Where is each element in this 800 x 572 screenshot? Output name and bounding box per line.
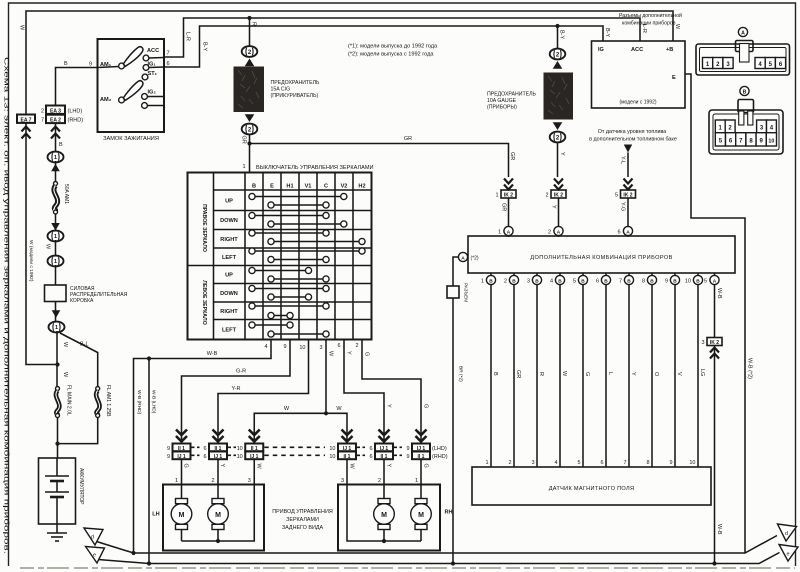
battery АККУМУЛЯТОР	[39, 458, 85, 524]
svg-text:LEFT: LEFT	[222, 328, 237, 334]
wire	[55, 302, 57, 323]
svg-text:W: W	[561, 371, 567, 377]
sensor pin numbers	[485, 460, 695, 466]
svg-text:4: 4	[550, 279, 553, 285]
wire pin9 B	[56, 61, 98, 106]
sensor wire V	[675, 285, 682, 467]
svg-text:RIGHT: RIGHT	[220, 309, 238, 315]
svg-text:B: B	[627, 278, 631, 284]
svg-text:1: 1	[55, 325, 58, 331]
svg-text:IK 2: IK 2	[710, 340, 719, 346]
wire W to junction	[57, 331, 68, 387]
pin 1 A	[498, 226, 513, 237]
svg-text:FL MAIN 2.0L: FL MAIN 2.0L	[66, 385, 72, 416]
svg-text:GR: GR	[501, 203, 507, 211]
svg-text:B: B	[489, 278, 493, 284]
fusible link FL MAIN 2.0L	[56, 385, 72, 418]
svg-text:B: B	[535, 278, 539, 284]
svg-text:GR: GR	[509, 152, 515, 160]
svg-text:II 1: II 1	[418, 454, 425, 460]
svg-text:3: 3	[531, 460, 534, 466]
svg-text:LEFT: LEFT	[222, 255, 237, 261]
svg-text:Y-G: Y-G	[620, 202, 626, 211]
junction node BR bus	[451, 561, 455, 565]
connector 2 IK2	[545, 179, 566, 199]
connector oval 2	[550, 49, 566, 69]
svg-text:Y: Y	[386, 404, 392, 408]
svg-text:10: 10	[237, 454, 243, 460]
junction node GR	[247, 141, 251, 145]
svg-text:IK 2: IK 2	[623, 193, 632, 199]
svg-text:10: 10	[329, 446, 335, 452]
sensor wire G	[583, 285, 590, 467]
svg-text:E: E	[672, 75, 676, 81]
svg-text:10: 10	[299, 345, 305, 351]
svg-text:B: B	[492, 372, 498, 376]
motor M1 RH	[411, 499, 432, 542]
ground bus upper (d)	[134, 536, 778, 554]
pin 9 B	[665, 273, 680, 285]
svg-text:B: B	[252, 184, 256, 190]
connector EA2 (RHD)	[41, 115, 83, 139]
svg-text:RIGHT: RIGHT	[220, 237, 238, 243]
ground bus lower (e)	[149, 553, 780, 564]
switch contact AM1	[98, 47, 143, 69]
connector A drawing	[696, 27, 790, 75]
svg-text:(*2): (*2)	[471, 256, 479, 262]
wire E W-B(*2)	[685, 74, 753, 553]
pin 10 B	[685, 273, 703, 285]
wire W-B (LHD) vertical	[136, 359, 157, 564]
svg-text:W-B: W-B	[207, 351, 218, 357]
svg-text:10: 10	[768, 139, 774, 145]
svg-text:ДАТЧИК МАГНИТНОГО ПОЛЯ: ДАТЧИК МАГНИТНОГО ПОЛЯ	[549, 486, 635, 492]
wire W-B to bus	[715, 346, 723, 564]
svg-text:2: 2	[508, 460, 511, 466]
connector EA7	[17, 115, 35, 139]
wire Y pin6	[344, 340, 392, 444]
svg-text:(RHD): (RHD)	[68, 118, 84, 124]
svg-text:Y: Y	[219, 464, 225, 468]
svg-text:9: 9	[669, 460, 672, 466]
connector oval 1	[48, 152, 64, 172]
junction node bus upper left	[131, 551, 135, 555]
svg-text:6: 6	[600, 460, 603, 466]
svg-text:A: A	[557, 229, 561, 235]
mirror actuator box LH	[152, 485, 264, 551]
wire W common RH	[341, 459, 421, 541]
pin 1 B	[481, 273, 496, 285]
mirror control switch ВЫКЛЮЧАТЕЛЬ УПРАВЛЕНИЯ ЗЕРКАЛАМИ	[188, 165, 374, 340]
svg-text:КОРОБКА: КОРОБКА	[70, 298, 94, 304]
svg-text:3: 3	[341, 478, 344, 484]
svg-text:ВЫКЛЮЧАТЕЛЬ УПРАВЛЕНИЯ ЗЕРКАЛА: ВЫКЛЮЧАТЕЛЬ УПРАВЛЕНИЯ ЗЕРКАЛАМИ	[256, 165, 374, 171]
svg-text:1: 1	[54, 234, 57, 240]
svg-text:G: G	[584, 372, 590, 376]
connector IJ pin6 LH	[203, 430, 236, 460]
svg-text:B-L: B-L	[80, 342, 89, 348]
svg-text:ДОПОЛНИТЕЛЬНАЯ КОМБИНАЦИЯ ПРИБ: ДОПОЛНИТЕЛЬНАЯ КОМБИНАЦИЯ ПРИБОРОВ	[530, 255, 672, 261]
wire G pin2	[362, 340, 429, 444]
svg-text:B: B	[581, 278, 585, 284]
pin 8 B	[642, 273, 657, 285]
svg-text:IJ 1: IJ 1	[177, 454, 186, 460]
svg-text:(*2): модели выпуска с 1992 го: (*2): модели выпуска с 1992 года	[348, 52, 434, 58]
triangle connector e left	[86, 547, 150, 564]
svg-text:5: 5	[573, 279, 576, 285]
wire from FL AM1	[58, 418, 98, 444]
svg-text:II 1: II 1	[344, 454, 351, 460]
svg-text:B-Y: B-Y	[559, 30, 565, 40]
svg-text:II 1: II 1	[215, 446, 222, 452]
net W top bus	[19, 11, 681, 115]
svg-text:1: 1	[485, 460, 488, 466]
wire W-B from pin 5A	[715, 285, 723, 338]
connector EA3 (LHD)	[41, 106, 82, 115]
connector IJ pin9 RH	[406, 430, 447, 460]
junction node	[55, 442, 59, 446]
svg-text:6: 6	[369, 454, 372, 460]
switch contacts right mirror DOWN	[249, 212, 347, 227]
svg-text:ПРЕДОХРАНИТЕЛЬ: ПРЕДОХРАНИТЕЛЬ	[487, 92, 537, 98]
svg-text:9: 9	[665, 279, 668, 285]
wire BR (*2)	[453, 257, 464, 564]
pin 4 B	[550, 273, 565, 285]
sensor wire L	[606, 285, 613, 467]
svg-text:IG₂: IG₂	[148, 90, 157, 96]
svg-text:A: A	[626, 229, 630, 235]
svg-text:E: E	[270, 184, 274, 190]
ground	[47, 524, 67, 541]
svg-text:II 1: II 1	[381, 454, 388, 460]
switch contact AM2	[100, 81, 143, 103]
svg-text:2: 2	[355, 343, 358, 349]
svg-text:H1: H1	[286, 184, 293, 190]
svg-text:Y: Y	[630, 372, 636, 376]
svg-text:G-R: G-R	[236, 369, 246, 375]
switch contacts left mirror DOWN	[249, 285, 329, 300]
svg-text:FL AM1 1.25B: FL AM1 1.25B	[105, 385, 111, 417]
svg-text:GR: GR	[241, 136, 247, 144]
svg-text:Y: Y	[346, 351, 352, 355]
svg-text:Y-L: Y-L	[620, 156, 626, 164]
connector oval 1	[49, 310, 65, 332]
svg-text:7: 7	[167, 51, 170, 57]
pin 2 B	[504, 273, 519, 285]
wire G to motor 1 LH	[175, 459, 189, 498]
wire W-B pin4	[134, 340, 272, 554]
connector IJ pin10 RH	[329, 430, 365, 460]
wire W	[45, 240, 56, 257]
svg-text:(LHD): (LHD)	[68, 109, 83, 115]
svg-text:IJ 1: IJ 1	[417, 446, 426, 452]
svg-text:B: B	[512, 278, 516, 284]
svg-text:M: M	[381, 512, 387, 519]
svg-text:4: 4	[554, 460, 557, 466]
svg-text:e: e	[787, 552, 790, 558]
svg-text:ПРЕДОХРАНИТЕЛЬ: ПРЕДОХРАНИТЕЛЬ	[271, 80, 321, 86]
svg-text:W: W	[62, 372, 68, 378]
magnetic field sensor box ДАТЧИК МАГНИТНОГО ПОЛЯ	[472, 467, 711, 505]
svg-text:1: 1	[54, 259, 57, 265]
wire B-L branch	[60, 333, 98, 387]
svg-text:O: O	[653, 372, 659, 377]
svg-text:15A CIG: 15A CIG	[271, 87, 291, 93]
svg-text:R: R	[251, 22, 257, 26]
svg-text:L: L	[607, 372, 613, 375]
svg-text:10: 10	[237, 446, 243, 452]
wire Y down	[558, 142, 566, 177]
svg-text:RH: RH	[445, 510, 453, 516]
wire G to motor 1 RH	[415, 459, 429, 498]
svg-text:9: 9	[89, 62, 92, 68]
ignition switch box ЗАМОК ЗАЖИГАНИЯ	[98, 39, 165, 142]
pin 3 B	[527, 273, 542, 285]
wire	[55, 214, 57, 231]
connector B drawing	[709, 86, 783, 154]
fusible link FL AM1 1.25B	[96, 385, 111, 418]
svg-text:W: W	[256, 464, 262, 470]
junction node LH motors	[216, 539, 220, 543]
svg-text:6: 6	[596, 279, 599, 285]
svg-text:8: 8	[646, 460, 649, 466]
svg-text:ST₁: ST₁	[148, 71, 158, 77]
svg-text:R: R	[538, 372, 544, 376]
svg-text:A: A	[713, 278, 717, 284]
svg-text:G: G	[364, 352, 370, 356]
svg-text:1: 1	[175, 478, 178, 484]
svg-text:ACC: ACC	[631, 47, 643, 53]
terminal ST1	[142, 71, 158, 80]
connector РАЗЪЕМ	[447, 283, 469, 302]
svg-text:W: W	[19, 25, 25, 31]
junction on L-R bus	[247, 16, 251, 20]
mirror actuator box RH	[338, 485, 453, 551]
sensor wire LG	[698, 285, 705, 467]
svg-text:(LHD): (LHD)	[432, 446, 447, 452]
svg-text:АККУМУЛЯТОР: АККУМУЛЯТОР	[78, 468, 84, 505]
svg-text:V2: V2	[341, 184, 348, 190]
svg-text:4: 4	[264, 344, 267, 350]
svg-text:W: W	[45, 244, 51, 250]
svg-text:10: 10	[689, 460, 695, 466]
junction on B-Y bus	[555, 24, 559, 28]
terminal IG1	[143, 62, 164, 71]
svg-text:V1: V1	[305, 184, 312, 190]
svg-text:DOWN: DOWN	[220, 291, 238, 297]
fuse 15A CIG	[234, 67, 321, 113]
net L-R bus	[164, 18, 647, 57]
wire to battery	[57, 418, 59, 459]
motor M1 LH	[171, 499, 192, 542]
svg-text:Y-R: Y-R	[232, 386, 241, 392]
svg-text:(модели с 1992): (модели с 1992)	[619, 100, 656, 106]
svg-text:1: 1	[415, 478, 418, 484]
motor M2 RH	[374, 499, 395, 542]
wire R from ACC bus	[250, 18, 257, 46]
svg-text:EA 3: EA 3	[50, 108, 61, 114]
svg-text:Схема 13: элект. оп. ивод упра: Схема 13: элект. оп. ивод управления зер…	[3, 57, 10, 555]
svg-text:6: 6	[337, 343, 340, 349]
svg-text:GR: GR	[515, 370, 521, 378]
svg-text:7: 7	[41, 118, 44, 124]
svg-text:B: B	[696, 278, 700, 284]
switch contacts right mirror UP	[249, 193, 347, 208]
svg-text:3: 3	[319, 345, 322, 351]
svg-text:W-B: W-B	[716, 524, 722, 535]
svg-text:W: W	[328, 351, 334, 357]
wire Y-G	[620, 198, 629, 227]
svg-text:W: W	[349, 464, 355, 470]
wire W left vertical	[26, 123, 58, 365]
wire B-Y to 10A fuse	[558, 26, 565, 49]
svg-text:От датчика уровня топлива: От датчика уровня топлива	[598, 129, 667, 135]
svg-text:W: W	[336, 406, 342, 412]
svg-text:ЛЕВОЕ ЗЕРКАЛО: ЛЕВОЕ ЗЕРКАЛО	[201, 280, 207, 324]
sensor wire R	[537, 285, 544, 467]
svg-text:1: 1	[495, 193, 498, 199]
switch contacts right mirror LEFT	[249, 248, 365, 263]
wire	[55, 161, 57, 182]
svg-text:6: 6	[203, 454, 206, 460]
svg-text:6: 6	[617, 230, 620, 236]
svg-text:G: G	[183, 464, 189, 468]
svg-text:9: 9	[406, 446, 409, 452]
svg-text:5: 5	[577, 460, 580, 466]
svg-text:UP: UP	[225, 273, 233, 279]
svg-text:LG: LG	[699, 369, 705, 376]
svg-text:A: A	[461, 255, 465, 261]
svg-text:B-Y: B-Y	[604, 28, 610, 38]
svg-text:B: B	[650, 278, 654, 284]
svg-text:W: W	[62, 342, 68, 348]
svg-text:ЗАМОК ЗАЖИГАНИЯ: ЗАМОК ЗАЖИГАНИЯ	[103, 136, 159, 142]
svg-text:1: 1	[54, 155, 57, 161]
wire W common LH	[182, 459, 262, 541]
wire GR to cluster	[250, 136, 509, 177]
svg-text:9: 9	[167, 446, 170, 452]
svg-text:d: d	[91, 535, 94, 541]
svg-text:IG: IG	[598, 47, 604, 53]
svg-text:5: 5	[615, 193, 618, 199]
svg-text:Разъемы дополнительной: Разъемы дополнительной	[619, 12, 682, 19]
svg-text:II 1: II 1	[251, 446, 258, 452]
fusible link 50A AM1	[54, 182, 70, 215]
actuator caption	[272, 509, 333, 531]
switch contacts left mirror UP	[249, 267, 329, 282]
svg-text:A: A	[741, 30, 745, 36]
wire Y	[551, 198, 559, 227]
triangle connector d left	[84, 528, 134, 553]
svg-text:B: B	[673, 278, 677, 284]
svg-text:II 1: II 1	[178, 446, 185, 452]
terminal unnamed	[142, 103, 164, 109]
connector 5 IK2	[615, 179, 636, 199]
svg-text:РАЗЪЕМ: РАЗЪЕМ	[464, 283, 469, 302]
svg-text:L-R: L-R	[185, 32, 191, 41]
svg-text:W-B (LHD): W-B (LHD)	[151, 390, 157, 414]
svg-text:e: e	[93, 553, 96, 559]
note (*1)(*2)	[348, 44, 438, 58]
pin 7 B	[619, 273, 634, 285]
svg-text:W: W	[284, 406, 290, 412]
connector oval 2	[550, 122, 566, 142]
pin A (*2) left	[458, 252, 478, 261]
svg-text:6: 6	[369, 446, 372, 452]
box instrument 1992 IG ACC +B	[592, 41, 686, 108]
fuel sender note	[589, 129, 677, 177]
junction node W-B bus	[712, 561, 716, 565]
svg-text:Y: Y	[551, 205, 557, 209]
svg-text:DOWN: DOWN	[220, 218, 238, 224]
junction node	[55, 362, 59, 366]
svg-text:2: 2	[378, 478, 381, 484]
svg-text:V: V	[676, 372, 682, 376]
pin 2 A	[548, 226, 563, 237]
svg-text:2: 2	[548, 230, 551, 236]
svg-text:IJ 1: IJ 1	[214, 454, 223, 460]
svg-text:+B: +B	[666, 47, 673, 53]
svg-text:W-B (*2): W-B (*2)	[747, 358, 753, 379]
connector oval 1	[48, 256, 64, 267]
svg-text:G: G	[423, 464, 429, 468]
additional instrument cluster box	[468, 236, 735, 273]
wire G-R pin9	[182, 340, 291, 444]
svg-text:B: B	[743, 89, 747, 95]
svg-text:9: 9	[406, 454, 409, 460]
switch contacts right mirror RIGHT	[249, 230, 365, 245]
wire GR down	[241, 134, 250, 173]
svg-text:IJ 1: IJ 1	[343, 446, 352, 452]
sensor wire O	[652, 285, 659, 467]
wire W pin3	[254, 340, 347, 444]
svg-text:10: 10	[685, 279, 691, 285]
svg-text:EA 7: EA 7	[21, 117, 32, 123]
svg-text:в дополнительном топливном бак: в дополнительном топливном баке	[589, 137, 677, 143]
svg-text:H2: H2	[358, 184, 365, 190]
svg-text:9: 9	[167, 454, 170, 460]
junction node W	[324, 411, 328, 415]
svg-text:GR: GR	[404, 136, 412, 142]
svg-text:10A GAUGE: 10A GAUGE	[487, 98, 517, 104]
sensor wire B	[491, 285, 498, 467]
power distribution box СИЛОВАЯ	[45, 285, 128, 304]
connector oval 1	[48, 223, 64, 241]
pin 5 A right	[704, 273, 719, 285]
connector IJ pin10 LH	[237, 430, 325, 460]
svg-text:7: 7	[619, 279, 622, 285]
wire Y to motor 2 RH	[378, 459, 392, 498]
svg-text:M: M	[215, 512, 221, 519]
wire GR	[501, 198, 509, 227]
svg-text:10: 10	[329, 454, 335, 460]
svg-text:7: 7	[623, 460, 626, 466]
svg-text:50A AM1: 50A AM1	[63, 184, 69, 204]
svg-text:EA 2: EA 2	[50, 118, 61, 124]
svg-text:IJ 1: IJ 1	[250, 454, 259, 460]
svg-text:C: C	[324, 184, 328, 190]
svg-text:6: 6	[167, 61, 170, 67]
svg-text:IK 2: IK 2	[504, 193, 513, 199]
svg-text:(RHD): (RHD)	[432, 454, 448, 460]
svg-text:комбинации приборов: комбинации приборов	[622, 21, 676, 27]
svg-text:Y: Y	[559, 152, 565, 156]
svg-text:ЗЕРКАЛАМИ: ЗЕРКАЛАМИ	[286, 517, 319, 523]
pin 6 B	[596, 273, 611, 285]
svg-text:IJ 1: IJ 1	[380, 446, 389, 452]
svg-text:B: B	[604, 278, 608, 284]
sensor wire W	[560, 285, 567, 467]
